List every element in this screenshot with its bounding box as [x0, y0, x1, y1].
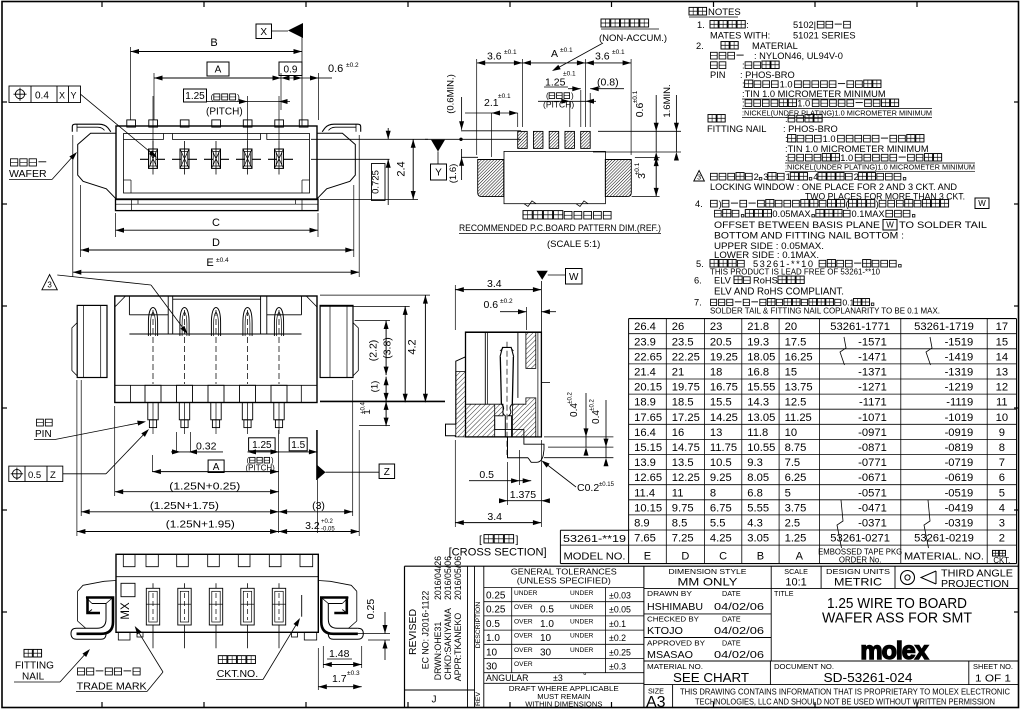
cross section hatched right wall lower	[513, 398, 536, 437]
svg-text:5102|: 5102|	[793, 20, 816, 30]
svg-text:APPROVED BY: APPROVED BY	[647, 638, 705, 647]
svg-text:THIS PRODUCT IS LEAD FREE OF 5: THIS PRODUCT IS LEAD FREE OF 53261-**10	[710, 268, 881, 277]
svg-text:-1019: -1019	[945, 412, 974, 424]
svg-text:11.75: 11.75	[710, 442, 737, 454]
cross section reference lines right	[544, 436, 613, 438]
svg-text:5.: 5.	[696, 259, 704, 269]
svg-text:7.5: 7.5	[785, 457, 801, 469]
svg-text:W: W	[569, 272, 579, 283]
svg-text:6: 6	[999, 472, 1005, 484]
svg-text:REVISED: REVISED	[407, 609, 419, 656]
svg-text:A: A	[551, 48, 558, 60]
svg-text:3: 3	[697, 175, 701, 182]
top view bottom plate	[116, 199, 319, 211]
svg-text:2: 2	[999, 533, 1005, 545]
svg-text:CHECKED BY: CHECKED BY	[647, 615, 699, 624]
svg-text:LOCKING WINDOW : ONE PLACE FOR: LOCKING WINDOW : ONE PLACE FOR 2 AND 3 C…	[710, 182, 957, 192]
svg-text:3.05: 3.05	[747, 533, 769, 545]
svg-text:20.15: 20.15	[634, 382, 662, 394]
svg-text:±0.25: ±0.25	[609, 647, 631, 657]
svg-text:A: A	[796, 551, 804, 563]
svg-text:WAFER ASS FOR SMT: WAFER ASS FOR SMT	[822, 611, 972, 627]
pcb dimension 0.6 right	[598, 130, 681, 132]
svg-text:±0.2: ±0.2	[568, 392, 574, 404]
svg-text::: :	[742, 61, 745, 71]
svg-text:12: 12	[996, 382, 1008, 394]
svg-text:4.: 4.	[695, 199, 703, 209]
cross section cavity walls	[484, 333, 486, 405]
svg-text:7: 7	[999, 457, 1005, 469]
svg-text:-0619: -0619	[945, 472, 974, 484]
svg-text:-0971: -0971	[858, 427, 887, 439]
cross section dimension 0.4 second	[605, 400, 607, 447]
revision strip	[467, 566, 469, 707]
svg-text:3.4: 3.4	[487, 511, 502, 523]
cross section dimension 0.4 first	[585, 393, 587, 437]
svg-text:-0719: -0719	[945, 457, 974, 469]
bottom view right fitting nail hook	[319, 581, 364, 640]
svg-text:18.5: 18.5	[672, 397, 694, 409]
svg-text:MM ONLY: MM ONLY	[678, 576, 739, 588]
svg-text:(1.25N+0.25): (1.25N+0.25)	[169, 480, 240, 492]
cross section solder tail	[480, 437, 528, 458]
svg-text:SEE CHART: SEE CHART	[673, 670, 749, 685]
svg-text:11: 11	[996, 397, 1008, 409]
svg-text:10.15: 10.15	[634, 502, 662, 514]
pcb layout caption	[523, 211, 532, 219]
cross section dimension 1.375	[507, 462, 509, 505]
svg-text:20.5: 20.5	[710, 336, 732, 348]
note 3 locking window	[694, 171, 705, 182]
bottom view trademark square and MX	[121, 583, 135, 596]
svg-text:0.5: 0.5	[479, 469, 494, 481]
svg-text:C: C	[719, 551, 727, 563]
svg-text:D: D	[212, 237, 220, 249]
svg-text:SHEET NO.: SHEET NO.	[973, 662, 1013, 671]
svg-text:+0.2: +0.2	[321, 519, 334, 525]
svg-text:1.48: 1.48	[329, 648, 350, 660]
svg-text:3: 3	[47, 281, 52, 290]
svg-text:MSASAO: MSASAO	[647, 649, 693, 661]
svg-text:5.55: 5.55	[747, 502, 769, 514]
front view dimension A boxed	[208, 460, 224, 473]
svg-text:22.65: 22.65	[634, 351, 662, 363]
svg-text:°: °	[583, 671, 587, 681]
svg-text:±0.2: ±0.2	[590, 399, 596, 411]
svg-text:OVER: OVER	[514, 647, 533, 654]
front view pins	[148, 308, 157, 337]
svg-text:-1271: -1271	[858, 382, 887, 394]
svg-text:0.5: 0.5	[540, 605, 554, 616]
svg-text:OVER: OVER	[514, 633, 533, 640]
svg-text:23.5: 23.5	[672, 336, 694, 348]
cross section dimension 0.5	[519, 450, 521, 485]
svg-text:17.5: 17.5	[785, 336, 807, 348]
svg-text:1.6MIN.: 1.6MIN.	[662, 84, 673, 117]
svg-text:8.75: 8.75	[785, 442, 807, 454]
svg-text:(0.8): (0.8)	[597, 77, 619, 89]
svg-text:-1519: -1519	[945, 336, 974, 348]
svg-text:2016/05/06: 2016/05/06	[443, 556, 453, 600]
svg-text:6.: 6.	[694, 276, 702, 286]
svg-text:26.4: 26.4	[634, 321, 656, 333]
svg-text:2.1: 2.1	[484, 97, 499, 109]
svg-text:(SCALE 5:1): (SCALE 5:1)	[547, 239, 600, 250]
svg-text:DRAWN BY: DRAWN BY	[647, 589, 692, 598]
pcb pattern left large pad hatched	[478, 160, 504, 197]
ckt no label	[218, 656, 227, 664]
svg-text:ANGULAR: ANGULAR	[486, 673, 529, 683]
svg-text:-0419: -0419	[945, 502, 974, 514]
svg-text:OVER: OVER	[514, 661, 533, 668]
svg-text:CKT.NO.: CKT.NO.	[217, 668, 258, 680]
svg-text::TIN 1.0 MICROMETER MINIMUM: :TIN 1.0 MICROMETER MINIMUM	[785, 144, 929, 154]
svg-text:4.2: 4.2	[407, 339, 419, 354]
notes heading	[689, 7, 697, 15]
front view dimension lines right side	[320, 294, 430, 296]
svg-text:0.6: 0.6	[484, 299, 499, 311]
svg-text:10.5: 10.5	[710, 457, 732, 469]
datum W flag	[540, 281, 542, 332]
svg-text:±0.3: ±0.3	[347, 670, 360, 677]
svg-text:MATERIAL. NO.: MATERIAL. NO.	[904, 551, 984, 563]
svg-text:0.4: 0.4	[35, 91, 49, 102]
svg-text:±0.1: ±0.1	[609, 619, 626, 629]
svg-text:KTOJO: KTOJO	[647, 625, 683, 637]
svg-text:17.65: 17.65	[634, 412, 662, 424]
svg-text:molex: molex	[860, 637, 928, 665]
svg-text:3.4: 3.4	[487, 278, 502, 290]
svg-text::NICKEL(UNDER PLATING)1.0 MICR: :NICKEL(UNDER PLATING)1.0 MICROMETER MIN…	[742, 109, 932, 118]
pcb dimension 3.6 right	[584, 59, 586, 127]
svg-text:11.4: 11.4	[634, 487, 655, 499]
part number table	[629, 318, 1017, 320]
svg-text:6.75: 6.75	[710, 502, 732, 514]
datum X flag	[256, 24, 272, 39]
svg-text:19.75: 19.75	[672, 382, 700, 394]
svg-text:FITTING: FITTING	[15, 661, 54, 672]
svg-text:-1371: -1371	[858, 367, 887, 379]
datum Z flag	[317, 465, 326, 481]
svg-text:D: D	[681, 551, 689, 563]
svg-text:13.9: 13.9	[634, 457, 656, 469]
svg-text:PIN: PIN	[710, 70, 726, 80]
svg-text:A: A	[213, 462, 220, 473]
svg-text:53261-1771: 53261-1771	[830, 321, 890, 333]
front view body outline	[115, 296, 317, 403]
svg-text:C0.2: C0.2	[577, 482, 599, 494]
svg-text:3.6: 3.6	[595, 51, 610, 63]
svg-text:±0.03: ±0.03	[609, 591, 631, 601]
svg-text:1.7: 1.7	[332, 673, 347, 685]
svg-text:14.25: 14.25	[710, 412, 738, 424]
dimension 0.9	[279, 62, 302, 76]
svg-text:FITTING NAIL: FITTING NAIL	[707, 124, 766, 134]
cross section left step	[446, 357, 466, 437]
svg-text:-0471: -0471	[858, 502, 887, 514]
svg-text:8: 8	[710, 487, 716, 499]
svg-text:1.25: 1.25	[785, 533, 807, 545]
svg-text:W: W	[978, 199, 986, 208]
svg-text:04/02/06: 04/02/06	[714, 649, 764, 661]
front view bottom band	[115, 384, 317, 386]
pcb pattern body outline	[504, 151, 605, 203]
top view front rail line with lock window gaps	[124, 139, 164, 141]
svg-text:15.55: 15.55	[747, 382, 775, 394]
general tolerances table	[643, 566, 645, 707]
svg-text:12.65: 12.65	[634, 472, 662, 484]
top view wafer body outline	[116, 126, 317, 200]
svg-text:OVER: OVER	[514, 618, 533, 625]
svg-text:0.6: 0.6	[328, 63, 343, 75]
svg-text:: NYLON46, UL94V-0: : NYLON46, UL94V-0	[754, 51, 843, 61]
svg-text:THIS DRAWING CONTAINS INFORMAT: THIS DRAWING CONTAINS INFORMATION THAT I…	[680, 687, 1010, 696]
cross section dimension 3.4 top	[454, 285, 456, 330]
top view dashed centerline	[140, 158, 293, 160]
front view dimension 1.5 boxed	[289, 438, 307, 451]
svg-text:EC NO: J2016-1122: EC NO: J2016-1122	[421, 591, 431, 670]
svg-text:13.75: 13.75	[785, 382, 813, 394]
svg-text:TRADE MARK: TRADE MARK	[77, 681, 147, 693]
svg-text:5: 5	[785, 487, 791, 499]
svg-text:-1471: -1471	[858, 351, 887, 363]
svg-text:04/02/06: 04/02/06	[714, 625, 764, 637]
svg-text:TITLE: TITLE	[774, 589, 794, 598]
top view left fitting nail and side wing	[72, 124, 111, 132]
svg-text:8.9: 8.9	[634, 518, 650, 530]
svg-text:51021 SERIES: 51021 SERIES	[793, 31, 856, 41]
svg-text:0.25: 0.25	[486, 591, 506, 602]
svg-text::: :	[742, 99, 745, 109]
svg-text:B: B	[757, 551, 764, 563]
svg-text:0.5: 0.5	[486, 619, 500, 630]
svg-text:TECHNOLOGIES, LLC AND SHOULD N: TECHNOLOGIES, LLC AND SHOULD NOT BE USED…	[695, 697, 995, 706]
svg-text:C: C	[212, 217, 220, 229]
svg-text:30: 30	[486, 662, 498, 673]
bottom view ckt no indicator line	[301, 595, 303, 617]
svg-text:RECOMMENDED P.C.BOARD PATTERN: RECOMMENDED P.C.BOARD PATTERN DIM.(REF.)	[459, 223, 661, 233]
svg-text:6.25: 6.25	[785, 472, 807, 484]
svg-text:13.05: 13.05	[747, 412, 775, 424]
svg-text::: :	[785, 153, 788, 163]
svg-text:1.0: 1.0	[797, 99, 810, 109]
cross section dimension 3.4 bottom	[540, 440, 542, 527]
svg-text:0.1MAX.: 0.1MAX.	[852, 209, 888, 219]
dimension A top	[153, 73, 155, 120]
svg-text:±0.1: ±0.1	[612, 49, 625, 56]
size cell and disclaimer	[672, 685, 674, 708]
svg-text:10: 10	[540, 633, 552, 644]
svg-text:X: X	[59, 91, 65, 101]
svg-text:Z: Z	[50, 470, 56, 481]
svg-text:15.5: 15.5	[710, 397, 732, 409]
front view side wings	[77, 305, 107, 377]
bottom view top notches	[123, 554, 135, 566]
svg-text:DESIGN UNITS: DESIGN UNITS	[826, 567, 890, 576]
svg-text:WITHIN DIMENSIONS: WITHIN DIMENSIONS	[525, 700, 602, 709]
top view latch bumps on top edge	[149, 120, 158, 127]
svg-text:WAFER: WAFER	[9, 168, 47, 180]
svg-text:19.3: 19.3	[747, 336, 769, 348]
svg-text:1.: 1.	[697, 20, 705, 30]
svg-text:4.3: 4.3	[747, 518, 763, 530]
svg-text:9: 9	[999, 427, 1005, 439]
svg-text:±0.1: ±0.1	[634, 162, 641, 175]
svg-text:18.9: 18.9	[634, 397, 656, 409]
svg-text:±0.4: ±0.4	[361, 402, 367, 414]
svg-text:20: 20	[785, 321, 797, 333]
svg-text:0.25: 0.25	[365, 599, 377, 620]
front view dimension 0.32	[175, 432, 177, 452]
svg-text:: PHOS-BRO: : PHOS-BRO	[783, 124, 838, 134]
dimension B	[130, 47, 132, 120]
svg-text:MATES WITH:: MATES WITH:	[710, 31, 770, 41]
svg-text:1.0: 1.0	[540, 619, 554, 630]
dimension 2.4	[320, 199, 418, 201]
svg-text:53261-1719: 53261-1719	[914, 321, 974, 333]
svg-text:16: 16	[672, 427, 684, 439]
svg-text:UNDER: UNDER	[514, 590, 538, 597]
svg-text:-0819: -0819	[945, 442, 974, 454]
front view top corner chamfers	[115, 296, 126, 307]
bottom view left fitting nail hook	[71, 581, 116, 640]
svg-text:OFFSET BETWEEN BASIS PLANE: OFFSET BETWEEN BASIS PLANE	[714, 220, 880, 230]
svg-text:UNDER: UNDER	[570, 618, 594, 625]
datum Y target pcb	[425, 138, 521, 140]
position tolerance frame 0.5 Z	[9, 466, 63, 481]
svg-text:Z: Z	[384, 467, 390, 478]
svg-text:5.5: 5.5	[710, 518, 726, 530]
svg-text:21.8: 21.8	[747, 321, 769, 333]
bottom view contact slots	[146, 588, 159, 625]
svg-text:±0.1: ±0.1	[560, 47, 573, 54]
svg-text:-1171: -1171	[859, 397, 887, 409]
svg-text:-1119: -1119	[946, 397, 973, 409]
svg-text:(1.6): (1.6)	[448, 164, 459, 184]
fitting nail label	[24, 649, 32, 657]
svg-text:18.05: 18.05	[747, 351, 775, 363]
front view locking windows	[167, 296, 169, 334]
svg-text:2016/04/26: 2016/04/26	[433, 556, 443, 600]
svg-text:7.: 7.	[694, 298, 702, 308]
cross section dimension 0.6 top	[526, 307, 528, 330]
svg-text:DATE: DATE	[722, 615, 741, 624]
svg-text:(0.6MIN.): (0.6MIN.)	[446, 74, 457, 114]
svg-text:Y: Y	[435, 168, 442, 179]
svg-text:53261-0219: 53261-0219	[914, 533, 974, 545]
svg-text:1.25: 1.25	[185, 91, 205, 102]
svg-text:0.5: 0.5	[28, 470, 41, 481]
pcb dimension 1.6MIN right	[675, 95, 677, 152]
svg-text:11.8: 11.8	[747, 427, 768, 439]
title block outer structure	[405, 565, 1019, 567]
svg-text:0.9: 0.9	[284, 64, 298, 75]
trade mark label	[78, 668, 85, 675]
cross section contact pin profile	[500, 347, 514, 356]
svg-text:7.65: 7.65	[634, 533, 656, 545]
svg-text:-0671: -0671	[858, 472, 887, 484]
svg-text:PIN: PIN	[35, 429, 52, 440]
svg-text:): )	[719, 199, 722, 209]
svg-text:21: 21	[672, 367, 684, 379]
svg-text:±0.2: ±0.2	[500, 298, 513, 305]
svg-text:J: J	[432, 695, 437, 706]
svg-text:14.75: 14.75	[672, 442, 700, 454]
svg-text:16.8: 16.8	[747, 367, 769, 379]
svg-text:2.5: 2.5	[785, 518, 801, 530]
svg-text:CHKD:SAKIYAMA: CHKD:SAKIYAMA	[443, 608, 453, 680]
svg-text:-1419: -1419	[945, 351, 974, 363]
svg-text:3.2: 3.2	[305, 520, 320, 532]
frame centering tick marks	[101, 2, 103, 8]
svg-text:(3): (3)	[312, 500, 325, 512]
svg-text:30: 30	[540, 647, 552, 658]
svg-text:(: (	[211, 92, 214, 102]
svg-text:23.9: 23.9	[634, 336, 656, 348]
cross section outer shell layer lines	[537, 332, 539, 437]
svg-text:(2.2): (2.2)	[368, 340, 380, 362]
svg-text:17: 17	[996, 321, 1008, 333]
top view inner slot details	[124, 179, 132, 181]
svg-text:: PHOS-BRO: : PHOS-BRO	[740, 70, 795, 80]
dimension C	[115, 213, 117, 237]
svg-text:15.15: 15.15	[634, 442, 662, 454]
bottom view bottom feet	[118, 632, 130, 640]
svg-text:13: 13	[996, 367, 1008, 379]
svg-text:METRIC: METRIC	[834, 576, 882, 588]
svg-text:ELV AND RoHS COMPLIANT.: ELV AND RoHS COMPLIANT.	[714, 287, 844, 298]
svg-text:[: [	[479, 534, 482, 546]
svg-text:OVER: OVER	[514, 604, 533, 611]
svg-text:4: 4	[999, 502, 1005, 514]
svg-text:0.6: 0.6	[634, 103, 646, 118]
svg-text:1.0: 1.0	[840, 153, 853, 163]
svg-text:26: 26	[672, 321, 684, 333]
svg-text:DATE: DATE	[722, 638, 741, 647]
svg-text:-0319: -0319	[945, 518, 974, 530]
svg-text:]: ]	[516, 534, 519, 546]
svg-text:(1.25N+1.95): (1.25N+1.95)	[166, 519, 235, 531]
third angle projection symbol	[901, 571, 915, 585]
position tolerance frame 0.4 X Y	[9, 86, 81, 103]
svg-text:-0871: -0871	[858, 442, 887, 454]
svg-text:±0.4: ±0.4	[216, 257, 229, 264]
svg-text:W: W	[886, 221, 894, 230]
svg-text:23: 23	[710, 321, 722, 333]
svg-text:2016/05/06: 2016/05/06	[453, 556, 463, 600]
triangle note 3 marker front view	[42, 275, 57, 290]
svg-text:HSHIMABU: HSHIMABU	[647, 601, 703, 613]
dimension 0.725	[387, 128, 389, 139]
svg-text:APPR:TKANEKO: APPR:TKANEKO	[453, 613, 463, 682]
svg-text:±0.05: ±0.05	[609, 605, 631, 615]
svg-text:MODEL NO.: MODEL NO.	[564, 551, 626, 563]
svg-text:±0.3: ±0.3	[609, 662, 626, 672]
pcb dimension 3 right	[635, 157, 660, 159]
svg-text:UNDER: UNDER	[570, 590, 594, 597]
svg-text:PROJECTION: PROJECTION	[941, 578, 1009, 590]
svg-text:15: 15	[785, 367, 797, 379]
svg-text:0.05MAX.: 0.05MAX.	[772, 209, 813, 219]
svg-text:7.25: 7.25	[672, 533, 694, 545]
svg-text:MX: MX	[120, 602, 132, 620]
svg-text:X: X	[260, 27, 267, 38]
svg-text:(UNLESS SPECIFIED): (UNLESS SPECIFIED)	[517, 576, 611, 586]
svg-text:1.375: 1.375	[510, 489, 536, 501]
svg-text:A: A	[215, 65, 222, 76]
svg-text:1 OF 1: 1 OF 1	[975, 673, 1011, 685]
svg-text:UNDER: UNDER	[570, 604, 594, 611]
